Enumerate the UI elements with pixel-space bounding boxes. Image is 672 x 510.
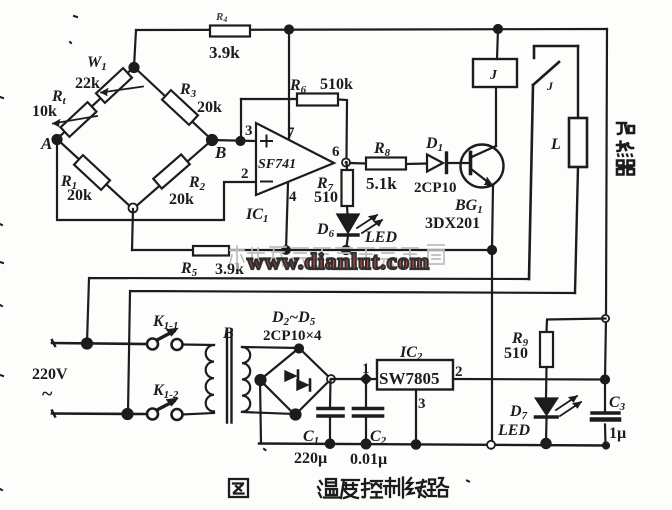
wire ground rail [259,444,607,446]
label C1 [303,428,319,447]
label pin4 [289,189,297,205]
label 10k [32,103,57,120]
node D6 junction on R5 row [342,246,350,254]
op-amp minus sign [261,181,272,183]
wire rectifier left corner to ground rail [260,380,261,444]
label 3.9k R4 [209,43,240,62]
label Rt [51,88,67,107]
wire bridge arm top-left [57,67,134,139]
svg-text:IC1: IC1 [245,206,268,225]
switch K1-2 [147,399,183,420]
label C3 [609,394,626,413]
label 510k [320,76,353,93]
node rectifier top corner [295,345,303,353]
svg-text:R6: R6 [289,77,307,96]
label R6 [289,77,307,96]
node C2 ground junction [362,440,371,449]
label IC2 [399,344,423,363]
svg-text:3DX201: 3DX201 [425,215,480,232]
svg-text:10k: 10k [32,103,57,120]
wire output node to R8 [350,163,427,164]
node bridge top junction [130,63,139,72]
capacitor C1 220u [318,380,343,444]
resistor R6 510k [297,94,338,106]
svg-text:510: 510 [504,345,528,362]
label IC1 [245,206,268,225]
svg-text:20k: 20k [169,191,194,208]
label 20k R3 [197,99,222,116]
svg-text:D1: D1 [425,135,443,154]
label pin3 IC2 [418,396,426,412]
wire pin3 to ground rail [415,390,417,445]
switch K1-1 [147,329,183,350]
svg-text:R4: R4 [215,11,227,24]
svg-text:LED: LED [364,229,397,246]
node A [53,135,62,144]
label contact J [546,79,554,93]
label D1 [425,135,443,154]
wire bridge arm top-right [134,67,212,140]
svg-text:SF741: SF741 [258,157,296,172]
wire mains top line [52,343,146,344]
svg-text:510k: 510k [320,76,353,93]
label R7 [316,175,334,194]
wire R9 to LED D7 [545,367,548,398]
label pin7 [287,125,295,141]
node junction top rail relay feed [494,25,502,33]
resistor R5 3.9k [193,246,229,256]
label pin6 [332,144,340,160]
diode D1 2CP10 [427,153,447,173]
node emitter R5 junction [488,246,496,254]
label 2CP10 [414,180,457,196]
LED D6 [338,215,359,251]
label W1 [87,54,107,73]
wire secondary bottom to rectifier [242,412,295,414]
svg-text:B: B [222,325,234,342]
node B [207,135,217,145]
svg-text:510: 510 [314,189,338,206]
wire R6 feedback top run [241,99,347,158]
svg-text:1µ: 1µ [609,425,626,442]
wire R9 feed from right column [547,319,606,333]
svg-text:B: B [214,143,226,162]
label C2 [370,428,387,447]
node 6 output (open) [342,159,350,167]
thermistor Rt 10k [53,102,97,137]
svg-text:7: 7 [287,125,295,141]
resistor R9 510 [540,332,553,367]
svg-text:5.1k: 5.1k [366,174,397,193]
wire K1-1 to transformer [183,343,215,346]
wire bridge arm bottom-right [133,140,212,209]
node rectifier right corner (open) [327,375,335,383]
wire pin7 vertical [288,29,290,138]
label pin2 [241,166,249,182]
wire bridge bottom to R5 row [132,209,133,250]
inductor L heater element [569,46,587,293]
svg-text:L: L [550,136,561,153]
svg-text:20k: 20k [67,187,92,204]
label mains tilde [42,383,53,405]
label 5.1k [366,174,397,193]
label K1-1 [152,313,178,332]
wire collector to relay [495,87,497,146]
svg-text:4: 4 [289,189,297,205]
svg-text:K1-1: K1-1 [152,313,178,332]
resistor R7 510 [342,162,354,214]
label R8 [373,140,391,159]
caption char kong [362,479,382,498]
svg-text:R8: R8 [373,140,391,159]
wire D1 to base [448,162,468,164]
svg-text:K1-2: K1-2 [152,382,179,401]
wire K1-2 to transformer [183,413,215,415]
label SW7805 [379,369,439,388]
wire emitter down to supply minus column [492,186,493,444]
label node B [214,143,226,162]
terminal mains top [52,340,55,346]
wire relay to top rail [497,29,498,59]
label 20k R1 [67,187,92,204]
node right column 5V junction [601,376,609,384]
label heater char jia [617,123,634,134]
label BG1 [454,197,483,216]
relay coil J [473,59,517,87]
wire top supply rail [136,29,607,30]
resistor R4 3.9k [210,26,250,37]
wire secondary top to rectifier [242,347,299,348]
transformer B core [227,330,232,424]
label R5 [180,260,198,279]
svg-text:6: 6 [332,144,340,160]
potentiometer W1 22k [96,68,143,103]
label 510 R9 [504,345,528,362]
label pin3 [245,123,253,139]
label D2~D5 [271,309,316,328]
node junction top rail pin7 feed [285,26,293,34]
node pin3 feedback junction [237,137,245,145]
wire bridge arm bottom-left [57,139,133,209]
label transformer B [222,325,234,342]
node pin3 ground junction [412,440,420,448]
label heater char re [617,142,633,157]
svg-text:www.dianlut.com: www.dianlut.com [247,249,429,274]
label 510 R7 [314,189,338,206]
svg-text:D6: D6 [316,221,335,240]
node D7 ground junction [541,439,550,448]
svg-text:0.01µ: 0.01µ [350,451,387,468]
label R1 [60,173,77,192]
node C3 ground end [603,443,609,449]
node C1 ground junction [326,440,334,448]
label R9 [511,330,529,349]
wire R5 row [132,249,492,251]
svg-text:3: 3 [418,396,426,412]
wire mains bottom line [52,412,146,415]
svg-text:3: 3 [245,123,253,139]
transistor Q1 BG1 3DX201 [461,145,504,188]
watermark red url text [247,249,429,274]
svg-text:J: J [489,68,498,83]
terminal mains bottom [52,411,55,417]
label pin1 IC2 [362,361,370,377]
label 1u [609,425,626,442]
node pin1 junction [360,373,373,386]
bridge rectifier internal diodes [285,371,310,391]
node emitter column ground (open) [487,441,495,449]
svg-text:2: 2 [455,364,463,380]
resistor R1 20k [74,155,110,190]
wire L row to mains column [128,291,575,413]
wire right vertical supply [605,29,607,380]
label D6 [316,221,335,240]
node rectifier left corner [256,375,266,385]
label R3 [179,81,197,100]
regulator IC2 SW7805 [377,360,453,390]
label pin2 IC2 [455,364,463,380]
svg-text:J: J [546,79,554,93]
svg-text:C2: C2 [370,428,387,447]
watermark gray company text [230,245,444,268]
svg-text:W1: W1 [87,54,107,73]
svg-text:1: 1 [362,361,370,377]
label D7 [509,403,528,422]
node bridge bottom (open) [129,204,138,213]
svg-text:~: ~ [42,383,53,405]
scan speck marks [0,16,469,490]
CJK [617,123,634,175]
node pin4 junction on R5 row [282,246,290,254]
label 220u [294,450,327,467]
bridge rectifier D2-D5 diamond [260,348,331,415]
svg-text:20k: 20k [197,99,222,116]
label 220V [32,366,68,383]
svg-text:C3: C3 [609,394,626,413]
label 20k R2 [169,191,194,208]
wire contact row to mains column [87,278,529,343]
wire 5V output row pin2 [453,378,605,381]
caption char lu [428,478,448,497]
svg-text:220V: 220V [32,366,68,383]
label LED D6 [364,229,397,246]
capacitor C2 0.01u [354,383,383,444]
caption char xian [406,478,427,497]
LED D7 light arrows [556,396,581,416]
wire bridge top stem [134,30,136,67]
node rectifier bottom corner [291,410,301,420]
label K1-2 [152,382,179,401]
transformer B primary [206,345,214,411]
LED D6 light arrows [357,215,382,233]
label node A [40,134,52,153]
svg-text:D2~D5: D2~D5 [271,309,316,328]
label 3DX201 [425,215,480,232]
node mains bottom junction [123,409,133,419]
svg-text:3.9k: 3.9k [209,43,240,62]
svg-text:D7: D7 [509,403,528,422]
wire R6 feedback drop to pin3 [240,99,242,141]
label 0.01u [350,451,387,468]
svg-text:220µ: 220µ [294,450,327,467]
wire A to ground run [57,139,256,220]
svg-text:R3: R3 [179,81,197,100]
svg-text:22k: 22k [75,75,100,92]
capacitor C3 1u [592,380,619,446]
node right column upper junction (open) [602,315,609,322]
svg-text:A: A [40,134,52,153]
node mains top junction [82,339,92,349]
svg-text:BG1: BG1 [454,197,483,216]
svg-text:IC2: IC2 [399,344,423,363]
resistor R3 20k [162,90,198,125]
wire rectifier output to IC2 [331,378,377,380]
label SF741 [258,157,296,172]
label heater char qi [617,161,634,175]
label 3.9k R5 [215,261,244,278]
relay contact J switch [529,46,578,279]
svg-text:LED: LED [497,422,530,439]
wire pin4 vertical [286,183,288,250]
label R2 [188,174,206,193]
caption char wen [318,479,339,498]
label 22k [75,75,100,92]
svg-text:2CP10×4: 2CP10×4 [263,328,322,344]
wire B to pin3 [212,140,256,141]
label LED D7 [497,422,530,439]
label R4 [215,11,227,24]
label relay J [489,68,498,83]
resistor R8 5.1k [366,158,406,170]
caption char du [341,480,359,498]
op-amp plus sign [261,136,272,147]
resistor R2 20k [153,154,189,188]
label 2CP10x4 [263,328,322,344]
svg-text:C1: C1 [303,428,319,447]
caption char zhi [384,478,403,498]
LED D7 [536,399,558,444]
caption char tu [229,479,248,497]
label L [550,136,561,153]
svg-text:R5: R5 [180,260,198,279]
svg-text:2CP10: 2CP10 [414,180,457,196]
svg-text:2: 2 [241,166,249,182]
op-amp U1 SF741 triangle [256,123,334,195]
svg-text:SW7805: SW7805 [379,369,439,388]
transformer B secondary [242,347,250,412]
